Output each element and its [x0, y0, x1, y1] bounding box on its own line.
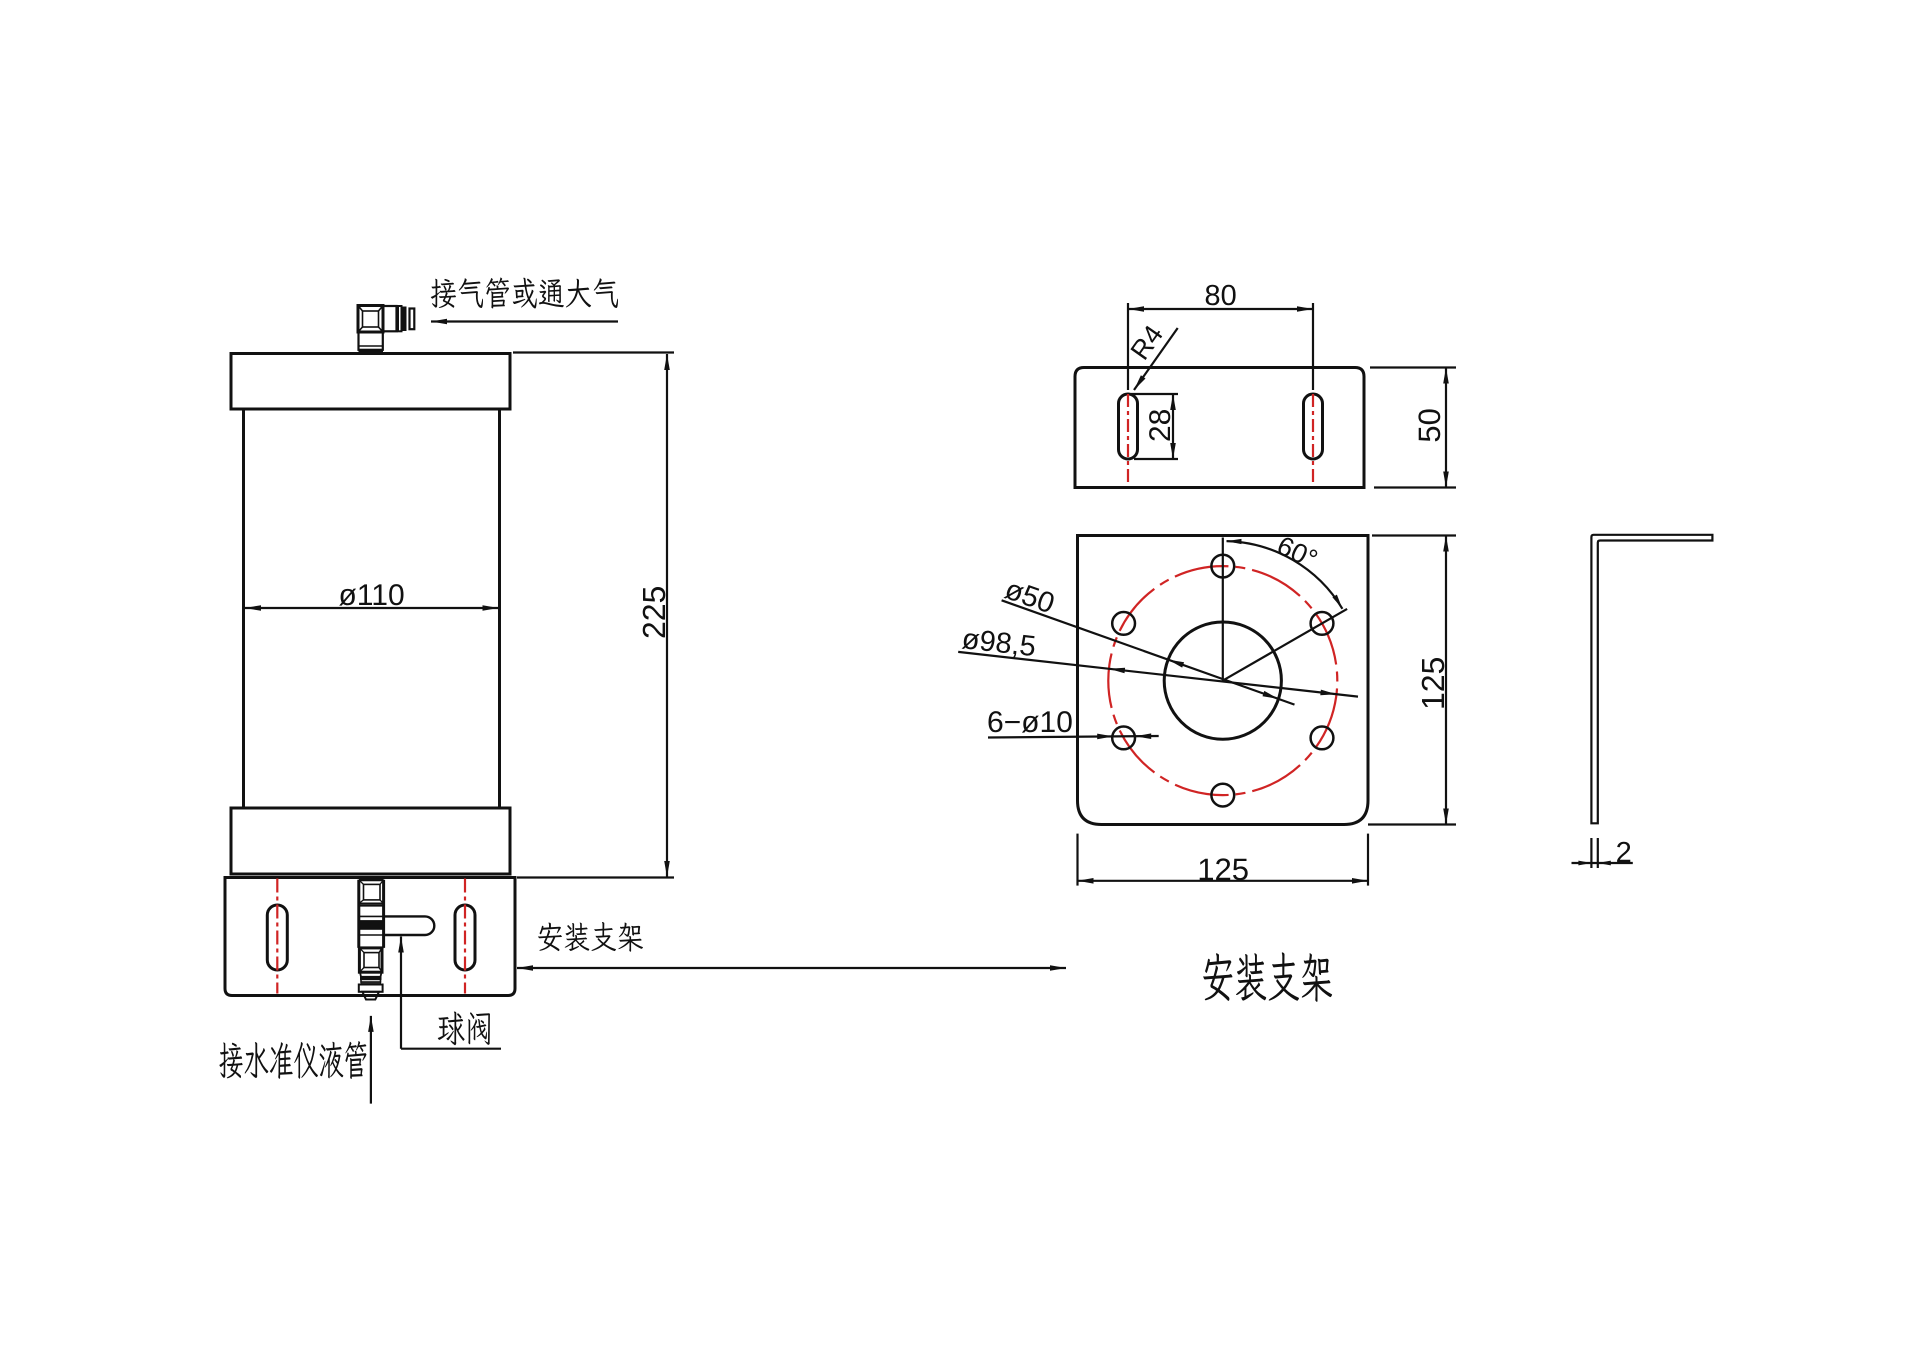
- dimension line ø110: [245, 607, 499, 609]
- leader line to bracket views: [517, 967, 1066, 969]
- tank cylinder body wall right: [498, 409, 501, 808]
- bracket right slot: [455, 905, 475, 970]
- label ball valve: [438, 1012, 490, 1046]
- extension line bracket top to dimension: [517, 876, 674, 878]
- dimension 80 between slots: [1128, 308, 1313, 310]
- centerline right slot rear plate: [1312, 394, 1314, 486]
- rear plate left slot: [1119, 394, 1138, 459]
- valve lower nut: [359, 948, 382, 972]
- square mounting plate outline: [1078, 536, 1369, 825]
- vertical centerline of plate: [1222, 538, 1224, 681]
- L-bracket side profile: [1591, 535, 1712, 824]
- mounting bracket front view: [225, 878, 515, 996]
- label: connect air pipe or vent to atmosphere: [431, 278, 618, 309]
- label connect level-instrument liquid pipe: [219, 1041, 366, 1079]
- six bolt holes ø10: [1211, 555, 1234, 578]
- 60 degree angular dimension arc: [1227, 541, 1343, 609]
- extension line top right of cap: [513, 351, 674, 353]
- radius line to upper-right hole: [1223, 609, 1347, 681]
- dimension 50 plate height: [1370, 366, 1456, 368]
- leader dimension ø98.5: [958, 652, 1358, 697]
- centerline left slot rear plate: [1127, 394, 1129, 486]
- rear plate right slot: [1304, 394, 1323, 459]
- tank cylinder body wall left: [242, 409, 245, 808]
- label mounting bracket (small): [538, 922, 643, 952]
- leader dimension 6-ø10: [988, 736, 1159, 738]
- dimension line 225: [666, 354, 668, 877]
- tank bottom cap: [231, 808, 510, 874]
- centerline through right slot: [464, 879, 466, 994]
- air fitting elbow connector on tank top: [358, 306, 383, 333]
- ball valve body stack: [357, 880, 360, 948]
- dimension 125 plate height: [1372, 534, 1456, 536]
- ball valve handle: [384, 916, 435, 935]
- leader for liquid pipe label: [370, 1016, 372, 1104]
- dimension 28 slot length: [1131, 393, 1178, 395]
- centerline through left slot: [276, 879, 278, 994]
- bracket rear plate outline: [1075, 368, 1364, 488]
- leader for ball valve label: [400, 937, 402, 1049]
- tank top cap: [231, 354, 510, 410]
- quick connector nozzle below bracket: [360, 972, 382, 977]
- bracket left slot: [267, 905, 287, 970]
- dimension 2 thickness: [1590, 838, 1592, 868]
- dimension 125 plate width: [1076, 834, 1078, 886]
- title mounting bracket (large): [1203, 952, 1332, 1002]
- leader dimension ø50: [1002, 600, 1295, 704]
- bolt circle ø98.5 (red): [1093, 551, 1352, 810]
- leader arrow for air pipe label: [431, 320, 618, 322]
- center hole ø50: [1164, 622, 1281, 739]
- leader R4 slot end radius: [1134, 328, 1178, 390]
